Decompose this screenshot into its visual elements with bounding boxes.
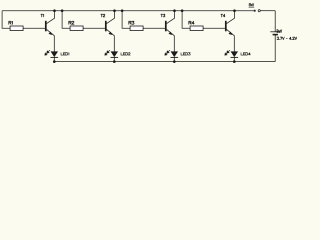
junction dot LED3 on ground rail — [173, 60, 176, 63]
transistor T4 emitter arrow — [229, 32, 233, 35]
battery BAT1 negative plate — [273, 34, 278, 36]
wire battery negative lead — [274, 35, 276, 62]
switch SW1 lever — [249, 6, 255, 8]
LED LED1 cathode bar — [51, 56, 59, 58]
junction dot LED2 on ground rail — [113, 60, 116, 63]
wire R3 to T3 base — [143, 27, 166, 29]
LED LED2 emission arrows — [105, 50, 110, 55]
transistor T2 emitter — [107, 29, 115, 51]
wire top supply rail (left of switch) — [2, 10, 254, 12]
junction dot feed of stage 3 — [121, 9, 124, 12]
transistor T2 collector — [107, 11, 115, 24]
wire LED3 cathode to ground rail — [173, 57, 175, 61]
LED LED3 cathode bar — [171, 56, 179, 58]
wire R4 to T4 base — [203, 27, 226, 29]
transistor T2 emitter arrow — [109, 32, 113, 35]
wire bottom ground rail — [54, 61, 275, 63]
label T1 — [41, 14, 44, 17]
transistor T3 base bar — [165, 21, 167, 32]
label LED3 — [181, 53, 190, 55]
label T3 — [161, 14, 165, 17]
LED LED1 triangle anode — [51, 51, 59, 57]
LED LED3 emission arrows — [165, 50, 170, 55]
junction dot T4 collector on rail — [233, 9, 236, 12]
label T4 — [221, 14, 225, 17]
transistor T2 base bar — [105, 21, 107, 32]
label Bat1 — [277, 30, 282, 33]
label LED2 — [121, 53, 130, 55]
battery BAT1 positive plate — [270, 31, 280, 33]
junction dot T2 collector on rail — [113, 9, 116, 12]
label T2 — [101, 14, 105, 17]
LED LED2 triangle anode — [111, 51, 119, 57]
transistor T1 collector — [47, 11, 55, 24]
label LED1 — [61, 53, 69, 55]
junction dot LED4 on ground rail — [233, 60, 236, 63]
LED LED1 emission arrows — [45, 50, 50, 55]
transistor T1 base bar — [45, 21, 47, 32]
LED LED3 triangle anode — [171, 51, 179, 57]
label SW1 — [249, 4, 253, 6]
wire feed from rail to R3 — [122, 11, 130, 29]
label R2 — [69, 21, 74, 24]
transistor T3 emitter — [167, 29, 175, 51]
resistor R4 — [190, 26, 203, 31]
resistor R1 — [10, 26, 23, 31]
wire LED1 cathode to ground rail — [53, 57, 55, 61]
junction dot feed of stage 2 — [61, 9, 64, 12]
wire R2 to T2 base — [83, 27, 106, 29]
junction dot feed of stage 4 — [181, 9, 184, 12]
LED LED4 cathode bar — [231, 56, 239, 58]
LED LED4 triangle anode — [231, 51, 239, 57]
junction dot LED1 on ground rail — [53, 60, 56, 63]
wire battery positive lead — [274, 11, 276, 32]
wire feed from rail to R1 — [2, 11, 10, 29]
junction dot T3 collector on rail — [173, 9, 176, 12]
LED LED4 emission arrows — [225, 50, 230, 55]
label R1 — [9, 21, 13, 24]
wire top supply rail (switch to battery) — [260, 10, 275, 12]
switch SW1 right contact circle — [258, 10, 260, 12]
label R4 — [189, 21, 194, 24]
transistor T4 base bar — [225, 21, 227, 32]
switch SW1 left contact pin — [254, 10, 256, 12]
wire feed from rail to R2 — [62, 11, 70, 29]
wire LED2 cathode to ground rail — [113, 57, 115, 61]
wire R1 to T1 base — [23, 27, 46, 29]
transistor T3 collector — [167, 11, 175, 24]
transistor T4 emitter — [227, 29, 235, 51]
transistor T1 emitter arrow — [49, 32, 53, 35]
transistor T1 emitter — [47, 29, 55, 51]
LED LED2 cathode bar — [111, 56, 119, 58]
wire feed from rail to R4 — [182, 11, 190, 29]
junction dot T1 collector on rail — [53, 9, 56, 12]
label LED4 — [241, 53, 250, 55]
resistor R2 — [70, 26, 83, 31]
transistor T4 collector — [227, 11, 235, 24]
transistor T3 emitter arrow — [169, 32, 173, 35]
value label 3.7V - 4.2V — [277, 37, 297, 39]
label R3 — [129, 21, 134, 24]
wire LED4 cathode to ground rail — [233, 57, 235, 61]
resistor R3 — [130, 26, 143, 31]
